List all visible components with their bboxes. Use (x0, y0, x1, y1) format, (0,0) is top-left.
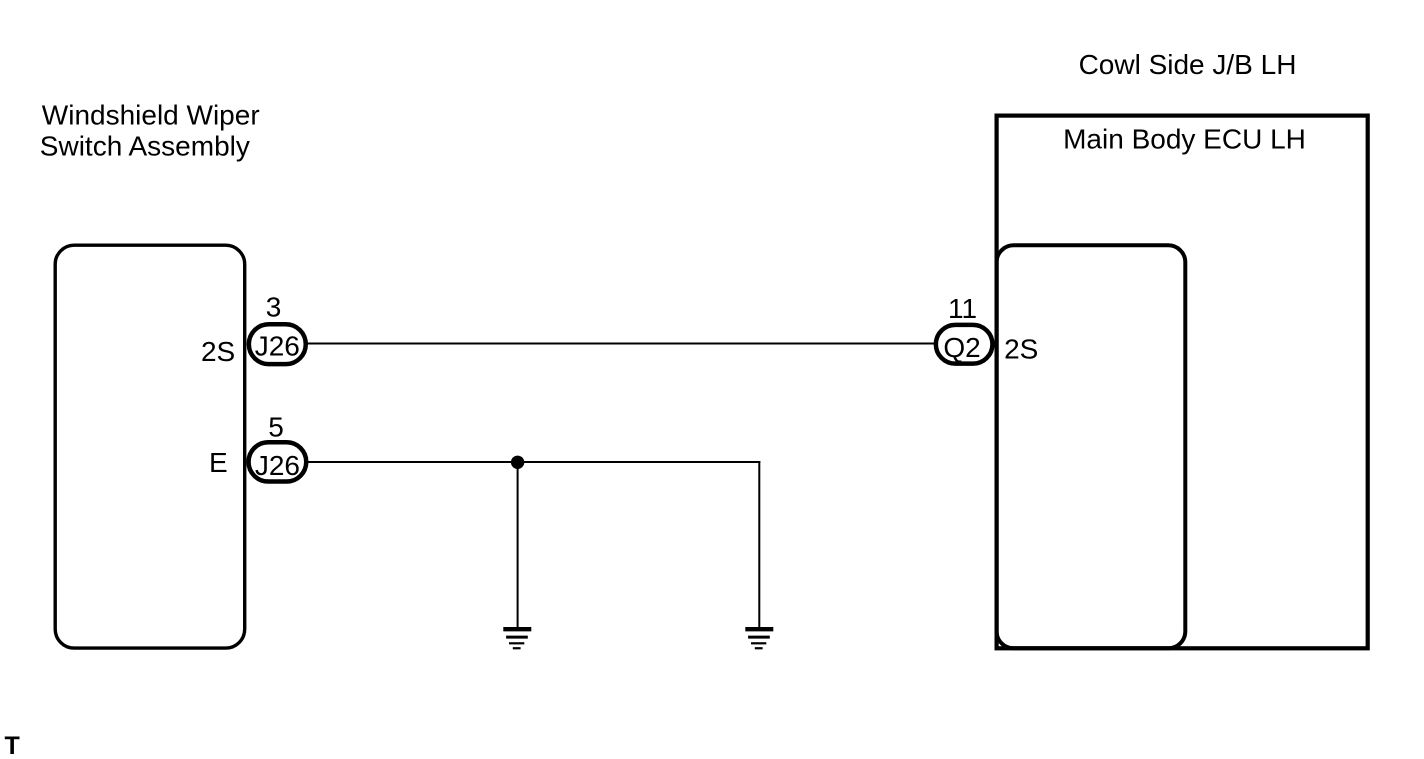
wire: vertical drop to ground (left) (517, 462, 519, 628)
wire: 2S signal from J26-3 to Q2-11 (308, 343, 935, 345)
svg-text:5: 5 (268, 411, 284, 442)
ground symbol (right) (745, 629, 773, 648)
svg-text:Switch Assembly: Switch Assembly (40, 131, 250, 162)
connector Q2 pin 11 (oval) (936, 325, 993, 364)
component U2: Main Body ECU LH inner box (997, 245, 1186, 648)
label: Main Body ECU LH (1063, 124, 1306, 155)
wire: vertical drop to ground (right) (758, 461, 760, 628)
component J/B: Cowl Side J/B LH outer box (997, 116, 1368, 649)
svg-text:2S: 2S (201, 336, 235, 367)
svg-text:J26: J26 (255, 450, 300, 481)
svg-text:Windshield Wiper: Windshield Wiper (42, 100, 260, 131)
label: page marker T (5, 732, 20, 759)
connector J26 pin 3 (oval) (249, 324, 306, 364)
wire: E ground wire horizontal from J26-5 (308, 461, 760, 463)
pin number 5 (268, 411, 284, 442)
pin number 3 (266, 291, 282, 322)
svg-text:Q2: Q2 (943, 332, 980, 363)
pin name E (switch side) (209, 447, 228, 478)
component U1: Windshield Wiper Switch Assembly box (55, 245, 245, 648)
node: junction dot on ground wire (511, 456, 524, 469)
ground symbol (left) (503, 629, 531, 648)
svg-text:11: 11 (948, 293, 977, 324)
svg-text:Main Body ECU LH: Main Body ECU LH (1063, 124, 1306, 155)
svg-text:T: T (5, 732, 20, 759)
svg-text:E: E (209, 447, 228, 478)
svg-text:3: 3 (266, 291, 282, 322)
label: Cowl Side J/B LH (junction block name) (1079, 49, 1297, 80)
pin name 2S (switch side) (201, 336, 235, 367)
svg-text:2S: 2S (1004, 334, 1038, 365)
connector J26 pin 5 (oval) (249, 442, 307, 481)
pin name 2S (ECU side) (1004, 334, 1038, 365)
label: Windshield Wiper Switch Assembly (component name) (40, 100, 260, 162)
svg-text:Cowl Side J/B LH: Cowl Side J/B LH (1079, 49, 1297, 80)
pin number 11 (948, 293, 977, 324)
svg-text:J26: J26 (255, 330, 300, 361)
